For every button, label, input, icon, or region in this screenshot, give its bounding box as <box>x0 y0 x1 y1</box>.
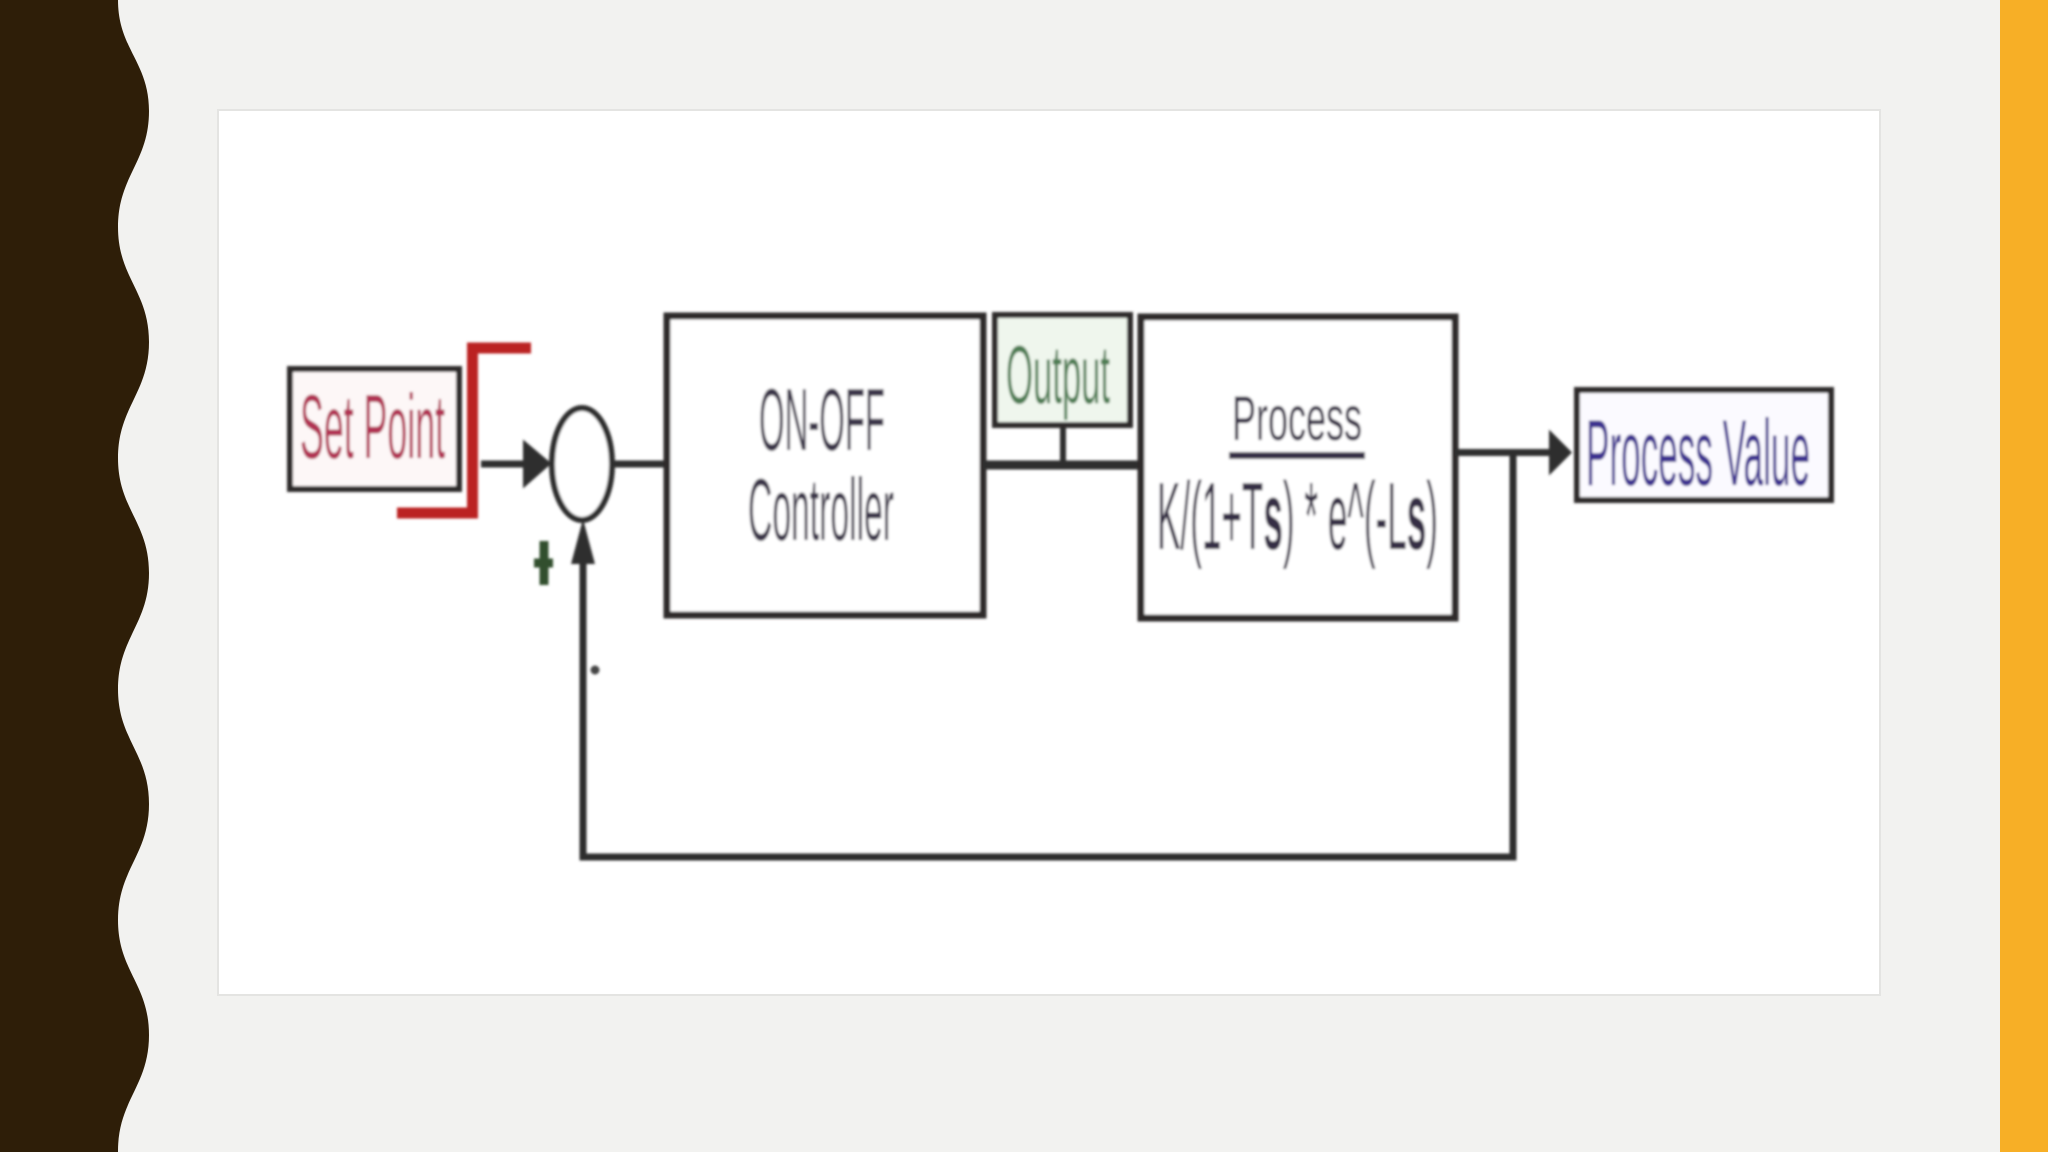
block Set Point <box>290 369 459 489</box>
left dark brown wavy band <box>0 0 149 1152</box>
svg-text:Set Point: Set Point <box>300 377 445 478</box>
block ON-OFF Controller U1 <box>667 316 983 615</box>
wire: controller to process <box>983 461 1141 470</box>
svg-text:Output: Output <box>1006 328 1110 421</box>
svg-text:Process: Process <box>1232 384 1362 454</box>
plus sign label <box>534 541 553 585</box>
wire: feedback bottom horizontal <box>580 854 1517 861</box>
wire: set point to summing junction with arrowhead <box>481 440 552 489</box>
wire: feedback right vertical <box>1510 452 1517 861</box>
block Process <box>1141 317 1455 618</box>
svg-text:Controller: Controller <box>748 460 894 559</box>
minus dot label <box>591 666 600 675</box>
wire: process to process value with arrowhead <box>1455 430 1572 476</box>
wire: output label connector <box>1060 425 1066 465</box>
svg-text:Process Value: Process Value <box>1586 400 1810 505</box>
set point step symbol (red) <box>397 343 531 519</box>
right orange bar <box>2000 0 2048 1152</box>
svg-text:ON-OFF: ON-OFF <box>759 370 885 469</box>
feedback arrowhead into summing junction <box>571 519 595 564</box>
summing junction <box>552 408 612 520</box>
svg-text:K/(1+Ts) * e^(-Ls): K/(1+Ts) * e^(-Ls) <box>1157 463 1438 570</box>
white content panel <box>218 110 1880 995</box>
wire: feedback left vertical <box>580 558 587 861</box>
block Output label <box>995 315 1130 425</box>
block Process Value <box>1577 390 1831 505</box>
wire: summing junction to controller <box>610 461 668 468</box>
